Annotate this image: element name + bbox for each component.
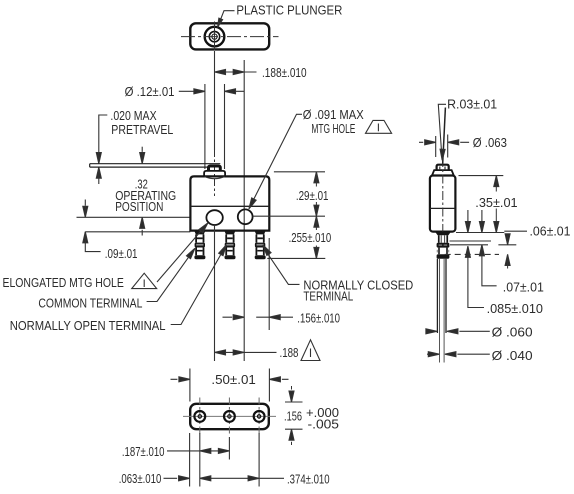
front view separation line [190,205,269,207]
svg-text:.29±.01: .29±.01 [296,189,329,203]
bottom view horizontal centerline [183,415,276,417]
dimension .156 tol arrows [289,391,294,402]
dimension dia .040 [427,353,490,355]
svg-text:.255±.010: .255±.010 [289,231,332,245]
side plunger cap [437,165,449,170]
terminal T3 front [255,231,266,259]
dimension .187 [167,450,229,452]
svg-text:R.03±.01: R.03±.01 [447,97,497,111]
wire leads side [437,259,446,333]
leader R.03 [438,104,446,151]
label ELONGATED MTG HOLE [3,276,124,290]
extension plunger center low [214,225,216,361]
flag 1 trapezoid [366,120,392,133]
svg-text:NORMALLY OPEN TERMINAL: NORMALLY OPEN TERMINAL [10,319,166,333]
svg-text:.188: .188 [280,346,299,360]
dimension .35 extension top [459,175,504,177]
svg-text:MTG HOLE: MTG HOLE [311,122,355,136]
flag 1 triangle bottom [301,340,320,361]
dimension .29 extension top [274,171,325,173]
svg-text:PLASTIC PLUNGER: PLASTIC PLUNGER [236,3,342,17]
plunger top view circles [205,27,225,47]
dimension dia .060 [426,330,490,332]
bottom terminal circle B3 [254,398,265,436]
svg-text:.188±.010: .188±.010 [262,66,307,80]
svg-text:Ø .12±.01: Ø .12±.01 [125,85,175,99]
svg-text:.06±.01: .06±.01 [530,225,571,239]
leader normally open [171,255,221,325]
dimension .50 [171,378,289,380]
dimension .32 operating position arrows [141,147,143,152]
extension line plunger center [214,51,216,150]
plunger cap front [209,166,221,171]
leader plastic plunger [218,11,234,26]
label dia .091 MAX MTG HOLE [303,108,365,136]
label R.03 [447,97,497,111]
extension line plunger left edge [204,84,206,169]
bottom terminal circle B2 [224,398,235,436]
label PLASTIC PLUNGER [236,3,342,17]
extension line y241 [450,240,492,242]
svg-text:.020 MAX: .020 MAX [110,109,157,123]
label .020 MAX PRETRAVEL [110,109,173,137]
terminal T1 front [194,231,205,259]
bottom view body [190,404,269,429]
front view body [190,176,269,230]
label NORMALLY CLOSED TERMINAL [303,278,413,303]
wire lever side [443,108,446,164]
dimension dia .12 [179,90,245,92]
dashed extension y254.4 [445,253,499,255]
svg-text:.35±.01: .35±.01 [475,196,517,210]
flag 1 triangle elongated [132,273,157,288]
extension line mtg hole center [243,60,245,361]
pretravel bracket and arrows [99,115,108,152]
side terminal [435,232,451,259]
dimension .188 +-.010 top [215,71,257,73]
svg-text:.50±.01: .50±.01 [211,373,255,387]
dimension .156 right [223,316,294,318]
svg-text:PRETRAVEL: PRETRAVEL [111,123,173,137]
svg-text:.374±.010: .374±.010 [287,472,330,486]
top view body [190,23,269,49]
leader common terminal [147,258,189,302]
svg-text:.156: .156 [284,410,302,424]
dimension .188 bottom [215,351,277,353]
svg-text:Ø .060: Ø .060 [492,326,533,340]
side body [430,176,456,232]
extension body right edge down [268,238,270,330]
svg-text:.063±.010: .063±.010 [119,472,162,486]
svg-text:Ø .040: Ø .040 [492,349,533,363]
dim .085 arrows [467,210,469,222]
svg-text:TERMINAL: TERMINAL [303,290,353,304]
label NORMALLY OPEN TERMINAL [10,319,166,333]
leader elongated mtg hole [157,230,202,282]
bottom terminal circle B1 [194,398,205,436]
svg-text:-.005: -.005 [308,417,340,431]
hole center extension [253,215,325,217]
terminal T2 front [225,231,236,259]
side body bottom extension [456,232,504,234]
dia .063 extension ticks [436,135,448,158]
dimension .50 extensions [190,369,270,402]
svg-text:.187±.010: .187±.010 [122,445,165,459]
round mtg hole (front) [238,209,253,224]
svg-text:.07±.01: .07±.01 [503,281,544,295]
operating position line [77,216,191,218]
dimension .255 [314,216,319,227]
svg-text:ELONGATED MTG HOLE: ELONGATED MTG HOLE [3,276,124,290]
terminal bottom extension [267,257,325,259]
extension line y244.8 [450,244,516,246]
svg-text:.085±.010: .085±.010 [487,302,543,316]
dimension .29 [314,172,319,183]
svg-text:.09±.01: .09±.01 [105,247,138,261]
svg-text:POSITION: POSITION [115,200,163,214]
dim .07 arrows [481,210,483,222]
label COMMON TERMINAL [38,296,142,310]
plunger base front [204,171,225,177]
dimension .063 and .374 [164,477,285,479]
top view horizontal centerline [181,36,279,38]
side separation line [430,207,456,209]
side centerline [442,158,444,234]
bottom view lower extensions [190,433,260,487]
svg-text:COMMON TERMINAL: COMMON TERMINAL [38,296,142,310]
dim .06 leader and arrows [504,230,527,232]
lever [90,164,221,167]
dimension .35 [494,176,499,187]
svg-text:Ø .063: Ø .063 [473,136,507,150]
top view vertical centerline [214,22,216,51]
svg-text:Ø .091 MAX: Ø .091 MAX [303,108,365,122]
dimension .156 tol extensions [285,402,303,429]
leader normally closed [268,254,300,285]
body bottom extension left [85,231,190,233]
side plunger boss [432,170,454,175]
dimension dia .063 [419,141,469,143]
leader dia .091 [252,114,302,202]
svg-text:.156±.010: .156±.010 [297,312,340,326]
dimension .09 [84,200,86,206]
extension line plunger right edge [224,84,226,169]
elongated mtg hole (front) [206,210,222,225]
